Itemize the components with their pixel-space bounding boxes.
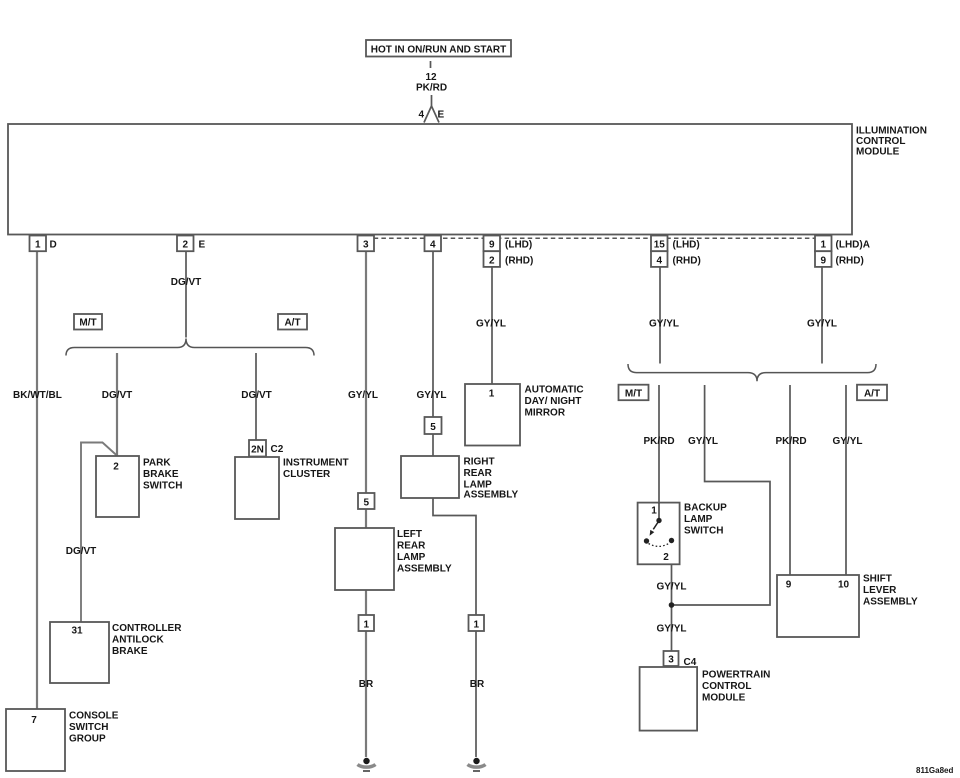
svg-text:DG/VT: DG/VT bbox=[241, 390, 272, 401]
svg-text:1: 1 bbox=[474, 620, 480, 631]
svg-text:2: 2 bbox=[183, 240, 189, 251]
svg-text:M/T: M/T bbox=[625, 389, 642, 400]
svg-text:2N: 2N bbox=[251, 445, 264, 456]
svg-text:GY/YL: GY/YL bbox=[656, 624, 686, 635]
svg-text:GY/YL: GY/YL bbox=[656, 582, 686, 593]
svg-text:HOT IN ON/RUN AND START: HOT IN ON/RUN AND START bbox=[371, 45, 507, 56]
svg-text:2: 2 bbox=[489, 255, 495, 266]
svg-text:ILLUMINATION: ILLUMINATION bbox=[856, 126, 927, 137]
svg-text:E: E bbox=[199, 240, 206, 251]
svg-text:E: E bbox=[438, 110, 445, 121]
svg-text:(RHD): (RHD) bbox=[673, 255, 701, 266]
svg-text:10: 10 bbox=[838, 580, 850, 591]
svg-text:C2: C2 bbox=[271, 444, 284, 455]
svg-text:D: D bbox=[50, 240, 57, 251]
svg-text:GY/YL: GY/YL bbox=[476, 319, 506, 330]
svg-text:(RHD): (RHD) bbox=[836, 255, 864, 266]
svg-text:LEVER: LEVER bbox=[863, 585, 897, 596]
svg-text:GY/YL: GY/YL bbox=[688, 436, 718, 447]
svg-text:4: 4 bbox=[657, 255, 663, 266]
svg-text:1: 1 bbox=[821, 240, 827, 251]
svg-text:BR: BR bbox=[470, 679, 485, 690]
svg-text:12: 12 bbox=[425, 72, 437, 83]
svg-text:(LHD): (LHD) bbox=[673, 240, 700, 251]
svg-text:PK/RD: PK/RD bbox=[416, 83, 447, 94]
svg-text:BR: BR bbox=[359, 679, 374, 690]
svg-text:1: 1 bbox=[35, 240, 41, 251]
svg-text:GY/YL: GY/YL bbox=[832, 436, 862, 447]
svg-text:ANTILOCK: ANTILOCK bbox=[112, 635, 164, 646]
svg-text:CONTROL: CONTROL bbox=[702, 681, 751, 692]
svg-text:DAY/ NIGHT: DAY/ NIGHT bbox=[525, 396, 582, 407]
svg-text:POWERTRAIN: POWERTRAIN bbox=[702, 670, 770, 681]
svg-text:SWITCH: SWITCH bbox=[143, 481, 182, 492]
svg-text:31: 31 bbox=[71, 626, 83, 637]
svg-text:(RHD): (RHD) bbox=[505, 255, 533, 266]
svg-text:1: 1 bbox=[651, 506, 657, 517]
svg-text:PK/RD: PK/RD bbox=[775, 436, 806, 447]
svg-text:LEFT: LEFT bbox=[397, 529, 422, 540]
svg-text:9: 9 bbox=[821, 255, 827, 266]
svg-text:4: 4 bbox=[418, 110, 424, 121]
svg-text:BACKUP: BACKUP bbox=[684, 503, 727, 514]
svg-text:1: 1 bbox=[489, 389, 495, 400]
svg-text:2: 2 bbox=[113, 462, 119, 473]
svg-text:MIRROR: MIRROR bbox=[525, 408, 566, 419]
svg-text:GROUP: GROUP bbox=[69, 734, 106, 745]
svg-text:LAMP: LAMP bbox=[397, 552, 426, 563]
svg-text:DG/VT: DG/VT bbox=[171, 277, 202, 288]
svg-text:GY/YL: GY/YL bbox=[416, 390, 446, 401]
svg-text:CONTROLLER: CONTROLLER bbox=[112, 623, 182, 634]
svg-text:7: 7 bbox=[31, 715, 37, 726]
svg-text:SHIFT: SHIFT bbox=[863, 574, 892, 585]
svg-text:REAR: REAR bbox=[464, 468, 493, 479]
svg-text:811Ga8ed: 811Ga8ed bbox=[916, 766, 953, 775]
svg-text:4: 4 bbox=[430, 240, 436, 251]
svg-text:CLUSTER: CLUSTER bbox=[283, 469, 331, 480]
svg-text:(LHD)A: (LHD)A bbox=[836, 240, 870, 251]
svg-text:INSTRUMENT: INSTRUMENT bbox=[283, 458, 349, 469]
svg-text:CONSOLE: CONSOLE bbox=[69, 711, 119, 722]
svg-text:A/T: A/T bbox=[284, 318, 300, 329]
svg-text:LAMP: LAMP bbox=[684, 514, 713, 525]
svg-text:C4: C4 bbox=[684, 657, 697, 668]
svg-text:M/T: M/T bbox=[79, 318, 96, 329]
svg-text:REAR: REAR bbox=[397, 541, 426, 552]
svg-text:MODULE: MODULE bbox=[856, 147, 900, 158]
svg-text:9: 9 bbox=[489, 240, 495, 251]
svg-text:2: 2 bbox=[663, 552, 669, 563]
svg-text:15: 15 bbox=[654, 240, 666, 251]
svg-text:SWITCH: SWITCH bbox=[684, 526, 723, 537]
svg-text:MODULE: MODULE bbox=[702, 693, 746, 704]
svg-text:GY/YL: GY/YL bbox=[649, 319, 679, 330]
svg-text:3: 3 bbox=[363, 240, 369, 251]
svg-text:ASSEMBLY: ASSEMBLY bbox=[863, 597, 918, 608]
svg-text:DG/VT: DG/VT bbox=[102, 390, 133, 401]
svg-text:1: 1 bbox=[364, 620, 370, 631]
svg-text:GY/YL: GY/YL bbox=[807, 319, 837, 330]
svg-text:SWITCH: SWITCH bbox=[69, 722, 108, 733]
svg-text:DG/VT: DG/VT bbox=[66, 546, 97, 557]
svg-text:PARK: PARK bbox=[143, 458, 171, 469]
svg-text:ASSEMBLY: ASSEMBLY bbox=[464, 490, 519, 501]
svg-text:PK/RD: PK/RD bbox=[643, 436, 674, 447]
svg-text:(LHD): (LHD) bbox=[505, 240, 532, 251]
svg-text:5: 5 bbox=[364, 498, 370, 509]
svg-text:AUTOMATIC: AUTOMATIC bbox=[525, 385, 584, 396]
svg-text:BRAKE: BRAKE bbox=[112, 646, 148, 657]
svg-text:9: 9 bbox=[786, 580, 792, 591]
svg-text:GY/YL: GY/YL bbox=[348, 390, 378, 401]
svg-text:CONTROL: CONTROL bbox=[856, 136, 905, 147]
svg-text:ASSEMBLY: ASSEMBLY bbox=[397, 564, 452, 575]
svg-text:3: 3 bbox=[668, 655, 674, 666]
svg-text:BK/WT/BL: BK/WT/BL bbox=[13, 390, 62, 401]
svg-text:A/T: A/T bbox=[864, 389, 880, 400]
svg-text:5: 5 bbox=[430, 422, 436, 433]
svg-text:BRAKE: BRAKE bbox=[143, 469, 179, 480]
svg-text:RIGHT: RIGHT bbox=[464, 457, 495, 468]
